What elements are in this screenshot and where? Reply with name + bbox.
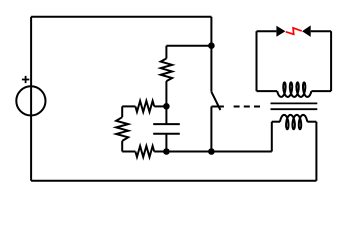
wire primary right lead <box>307 121 316 123</box>
wire right vertical of primary loop <box>315 122 317 181</box>
junction node dot A <box>208 42 215 49</box>
wire bottom <box>31 180 316 182</box>
wire bottom rail from node B to primary <box>166 151 271 153</box>
wire left rail <box>30 17 32 181</box>
resistor R4 bottom lead <box>121 141 123 152</box>
resistor R1 zigzag <box>161 59 172 82</box>
inductor L2 secondary coil <box>277 82 311 97</box>
capacitor C1 plates <box>153 124 180 134</box>
secondary box bottom left wire <box>257 90 278 92</box>
node B dot <box>163 148 170 155</box>
resistor R2 zigzag <box>135 101 154 112</box>
wire upper right rail <box>210 17 212 92</box>
dashed mechanical link <box>234 106 260 108</box>
resistor R4 zigzag <box>116 117 128 141</box>
switch SW1 contact bar <box>211 106 224 108</box>
secondary box right side <box>330 31 332 91</box>
resistor R3 right lead <box>154 151 166 153</box>
wire switch lower lead <box>210 107 212 152</box>
switch SW1 blade <box>211 92 220 110</box>
spark gap left electrode <box>276 26 285 37</box>
transformer core line 2 <box>271 108 318 110</box>
spark gap right electrode <box>302 25 311 37</box>
transformer core line 1 <box>271 102 318 104</box>
resistor R1 bottom lead <box>165 81 167 106</box>
junction dot at switch bottom <box>208 148 215 155</box>
resistor R3 left lead <box>122 151 135 153</box>
capacitor C1 top lead <box>165 106 167 124</box>
resistor R4 top lead <box>121 106 123 117</box>
voltage source V1 <box>16 86 45 115</box>
wire primary left vertical <box>271 122 273 152</box>
wire branch to R1 <box>166 45 211 47</box>
inductor L1 primary coil <box>280 115 307 129</box>
wire top <box>31 16 211 18</box>
secondary box left side <box>256 31 258 91</box>
resistor R3 zigzag <box>135 146 154 157</box>
capacitor C1 bottom lead <box>165 134 167 152</box>
secondary box top right wire <box>311 30 331 32</box>
node T dot <box>163 103 170 110</box>
resistor R2 right lead <box>154 105 166 107</box>
resistor R1 top lead <box>165 46 167 59</box>
secondary box bottom right wire <box>311 90 331 92</box>
plus sign of V1 <box>22 76 29 83</box>
wire primary left lead <box>272 121 280 123</box>
secondary box top left wire <box>257 30 277 32</box>
resistor R2 left lead <box>122 105 135 107</box>
spark (red lightning) <box>286 28 302 34</box>
